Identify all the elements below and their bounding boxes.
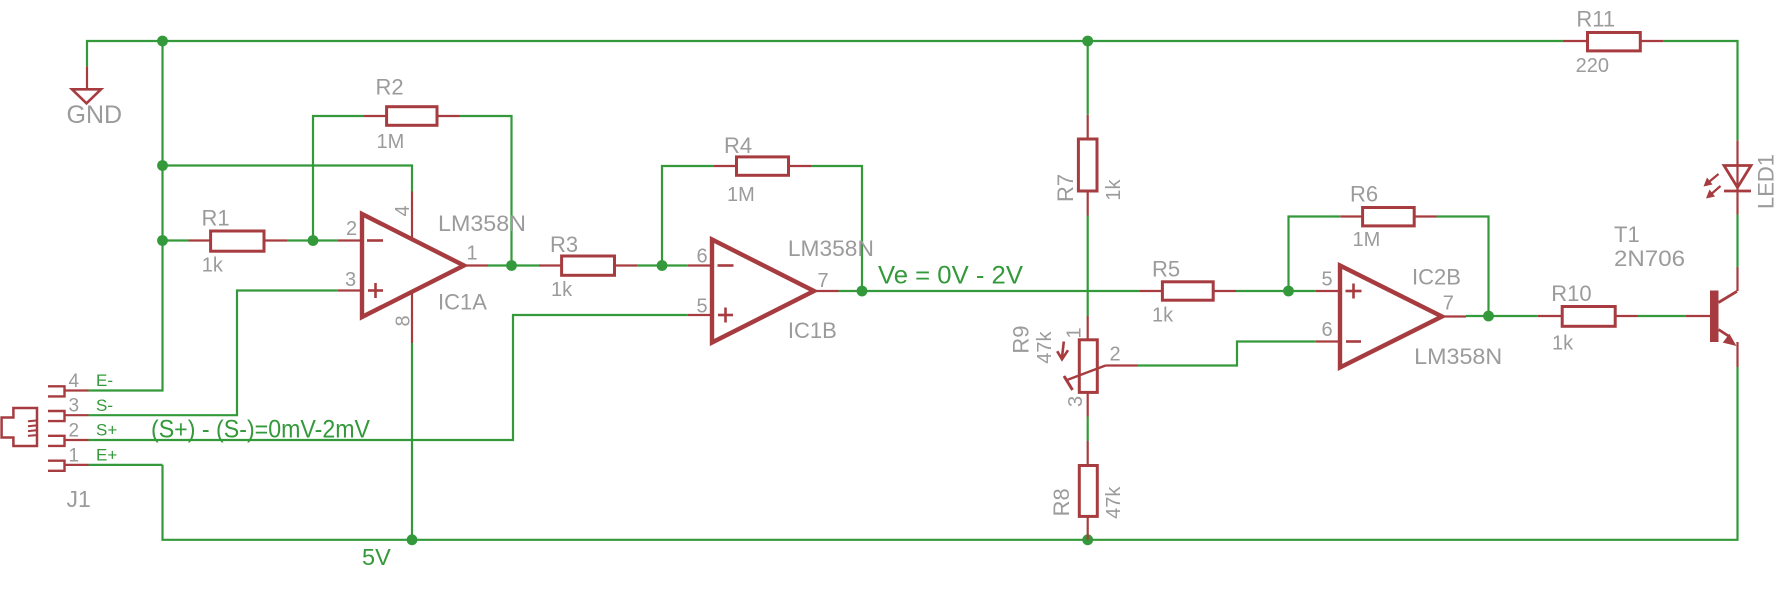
- wire R6 left vertical: [1289, 217, 1341, 292]
- svg-text:5V: 5V: [362, 544, 391, 570]
- node R3/R4/IC1B pin6: [657, 260, 668, 271]
- resistor R2: [364, 107, 460, 126]
- J1 pin 3 S-: [48, 411, 89, 421]
- svg-text:2: 2: [69, 421, 80, 442]
- svg-text:2: 2: [346, 218, 357, 240]
- wire node to IC2B pin5: [1289, 290, 1316, 292]
- node x162 y165: [157, 160, 168, 171]
- J1 pin 2 S+: [48, 436, 89, 446]
- svg-text:R11: R11: [1576, 6, 1615, 31]
- svg-text:1k: 1k: [202, 255, 224, 277]
- svg-text:47k: 47k: [1034, 330, 1056, 363]
- connector J1: [2, 408, 37, 446]
- wire R7 bottom to pot pin1: [1087, 216, 1089, 317]
- svg-text:4: 4: [69, 371, 80, 392]
- svg-text:1M: 1M: [1353, 229, 1381, 251]
- wire IC1B output to node: [839, 290, 863, 292]
- resistor R7: [1078, 115, 1097, 216]
- svg-text:220: 220: [1576, 55, 1609, 77]
- resistor R6: [1340, 208, 1436, 226]
- J1 pin 1 E+: [48, 461, 89, 471]
- svg-text:7: 7: [818, 270, 829, 292]
- svg-text:IC1B: IC1B: [788, 318, 837, 343]
- node 5V rail / IC1A pin8: [407, 534, 418, 545]
- svg-text:2: 2: [1110, 344, 1121, 366]
- svg-text:1M: 1M: [377, 131, 405, 153]
- wire E+ to 5V: [89, 464, 163, 466]
- svg-text:R10: R10: [1551, 281, 1591, 306]
- svg-text:1k: 1k: [1152, 305, 1174, 327]
- svg-text:1M: 1M: [727, 184, 755, 206]
- svg-text:R6: R6: [1350, 182, 1378, 207]
- svg-text:R5: R5: [1152, 257, 1180, 282]
- ground GND symbol: [72, 66, 101, 103]
- svg-text:R8: R8: [1049, 488, 1074, 516]
- svg-text:E-: E-: [96, 371, 113, 390]
- svg-text:E+: E+: [96, 446, 117, 465]
- wire node to IC1A pin2: [313, 239, 338, 241]
- svg-text:1k: 1k: [1552, 333, 1574, 355]
- svg-text:GND: GND: [67, 101, 123, 129]
- svg-text:(S+) - (S-)=0mV-2mV: (S+) - (S-)=0mV-2mV: [151, 416, 370, 444]
- resistor R3: [539, 256, 637, 275]
- node 5V rail / R8: [1082, 534, 1093, 545]
- resistor R1: [189, 231, 288, 251]
- resistor R4: [714, 157, 811, 175]
- svg-text:1: 1: [467, 243, 478, 265]
- svg-text:LM358N: LM358N: [788, 236, 874, 261]
- svg-text:2N706: 2N706: [1614, 246, 1685, 271]
- node R5/R6/IC2B pin5: [1283, 286, 1294, 297]
- resistor R11: [1563, 33, 1664, 51]
- wire top rail right segment after R11: [1663, 41, 1737, 140]
- wire GND top rail left segment: [87, 41, 1563, 66]
- wire R4 left vertical: [662, 166, 714, 266]
- node x162 y240 R1 left: [157, 235, 168, 246]
- node R1 right / R2 / IC1A pin2: [308, 235, 319, 246]
- wire IC1A pin8 down to 5V rail: [411, 343, 413, 540]
- svg-text:8: 8: [393, 315, 415, 326]
- wire node to IC1B pin6: [662, 264, 688, 266]
- resistor R10: [1538, 307, 1638, 327]
- svg-text:3: 3: [345, 269, 356, 291]
- svg-text:IC2B: IC2B: [1412, 265, 1461, 290]
- wire R2 left vertical: [313, 116, 364, 241]
- J1 pin 4 E-: [48, 386, 89, 396]
- svg-text:6: 6: [1322, 319, 1333, 341]
- svg-text:S-: S-: [96, 396, 113, 415]
- wire bottom 5V rail: [163, 367, 1738, 540]
- wire R3 right to node: [637, 264, 662, 266]
- svg-text:R9: R9: [1008, 325, 1033, 353]
- transistor T1: [1686, 267, 1738, 367]
- svg-text:R7: R7: [1053, 174, 1078, 202]
- wire S- to IC1A pin3: [89, 291, 338, 416]
- wire y165 branch to IC1A pin4: [163, 166, 413, 192]
- wire IC1A output to node: [488, 264, 512, 266]
- svg-text:LM358N: LM358N: [438, 211, 526, 236]
- wire R2 right down to IC1A output node: [460, 116, 512, 266]
- node IC1A output: [506, 260, 517, 271]
- svg-text:R3: R3: [550, 232, 578, 257]
- svg-text:IC1A: IC1A: [438, 290, 487, 315]
- svg-text:5: 5: [697, 296, 708, 318]
- svg-text:1: 1: [1064, 327, 1086, 338]
- junction nodes: [157, 36, 1494, 546]
- svg-text:4: 4: [392, 205, 414, 216]
- svg-text:LM358N: LM358N: [1414, 344, 1502, 369]
- node top rail / GND vertical: [157, 36, 168, 47]
- wire R1 right to node: [287, 239, 313, 241]
- svg-text:5: 5: [1322, 269, 1333, 291]
- svg-text:T1: T1: [1614, 222, 1640, 247]
- op-amp IC2B: [1316, 266, 1466, 368]
- svg-text:3: 3: [69, 396, 80, 417]
- wire pot pin3 to R8: [1087, 417, 1089, 442]
- wire pot wiper to IC2B pin6: [1138, 342, 1316, 366]
- svg-text:1: 1: [69, 445, 80, 466]
- svg-text:R1: R1: [202, 206, 230, 231]
- wire GND vertical x162: [89, 41, 163, 391]
- svg-text:6: 6: [697, 246, 708, 268]
- svg-text:7: 7: [1443, 293, 1454, 315]
- wire R10 right to T1 base: [1638, 315, 1686, 317]
- wire R4 right down to IC1B output node: [811, 166, 862, 291]
- svg-text:1k: 1k: [551, 279, 573, 301]
- wire R5 right to node: [1236, 290, 1289, 292]
- svg-text:LED1: LED1: [1753, 154, 1778, 209]
- node IC1B output Ve: [857, 286, 868, 297]
- svg-text:R2: R2: [376, 75, 404, 100]
- wire S+ to IC1B pin5: [89, 315, 688, 440]
- op-amp IC1B: [688, 240, 839, 343]
- wire node to R10 left: [1489, 315, 1538, 317]
- resistor R8: [1079, 441, 1097, 540]
- wire node to R3 left: [512, 264, 540, 266]
- wire R6 right down to IC2B output node: [1437, 217, 1489, 317]
- svg-text:1k: 1k: [1103, 178, 1125, 200]
- svg-text:3: 3: [1065, 396, 1087, 407]
- node top rail / R7: [1082, 36, 1093, 47]
- wire R7 top from rail: [1087, 41, 1089, 115]
- wire Ve net node to R5: [862, 290, 1140, 292]
- LED LED1: [1704, 140, 1752, 214]
- svg-text:R4: R4: [724, 133, 752, 158]
- node IC2B output: [1483, 311, 1494, 322]
- wire LED cathode to T1 collector: [1736, 215, 1738, 268]
- svg-text:47k: 47k: [1103, 486, 1125, 519]
- potentiometer R9: [1057, 316, 1137, 417]
- wire R1 left: [163, 239, 189, 241]
- resistor R5: [1140, 282, 1236, 300]
- svg-text:J1: J1: [67, 486, 91, 512]
- svg-text:Ve = 0V - 2V: Ve = 0V - 2V: [878, 262, 1023, 290]
- svg-text:S+: S+: [96, 421, 117, 440]
- op-amp IC1A: [338, 192, 488, 344]
- wire IC2B output to node: [1466, 315, 1489, 317]
